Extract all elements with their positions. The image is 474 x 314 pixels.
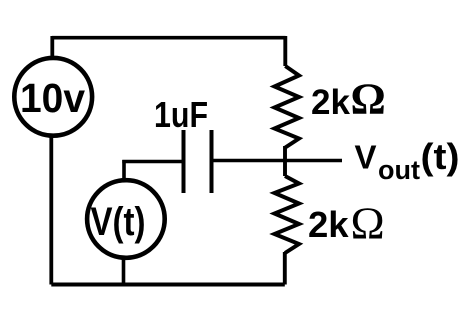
wire right vertical between node and R2 <box>283 159 287 176</box>
wire V(t) bottom stub <box>122 258 126 285</box>
wire left vertical top stub <box>50 36 54 58</box>
capacitor C1 right plate <box>210 130 214 193</box>
voltage source V(t) <box>87 180 165 258</box>
node wire to Vout <box>212 159 343 162</box>
resistor R1 2k ohm (upper) <box>275 66 300 148</box>
svg-text:1uF: 1uF <box>154 94 208 135</box>
voltage source 10v <box>14 58 92 136</box>
resistor R2 2k ohm (lower) <box>275 176 300 253</box>
svg-text:10v: 10v <box>20 75 85 121</box>
svg-text:2k: 2k <box>308 204 349 245</box>
wire right vertical bottom stub <box>283 252 287 285</box>
svg-text:2k: 2k <box>311 83 350 122</box>
capacitor C1 left plate <box>182 130 186 193</box>
wire left vertical bottom <box>49 135 53 285</box>
wire capacitor left lead <box>122 160 183 163</box>
svg-text:V(t): V(t) <box>91 200 146 244</box>
wire bottom horizontal <box>51 283 284 287</box>
wire right vertical top stub <box>283 36 287 66</box>
svg-text:Ω: Ω <box>351 75 386 124</box>
wire top horizontal <box>52 36 286 40</box>
svg-text:Ω: Ω <box>351 198 385 249</box>
svg-text:Vout(t): Vout(t) <box>355 136 460 185</box>
wire right vertical between R1 and node <box>283 146 287 162</box>
wire V(t) top stub <box>122 160 126 180</box>
